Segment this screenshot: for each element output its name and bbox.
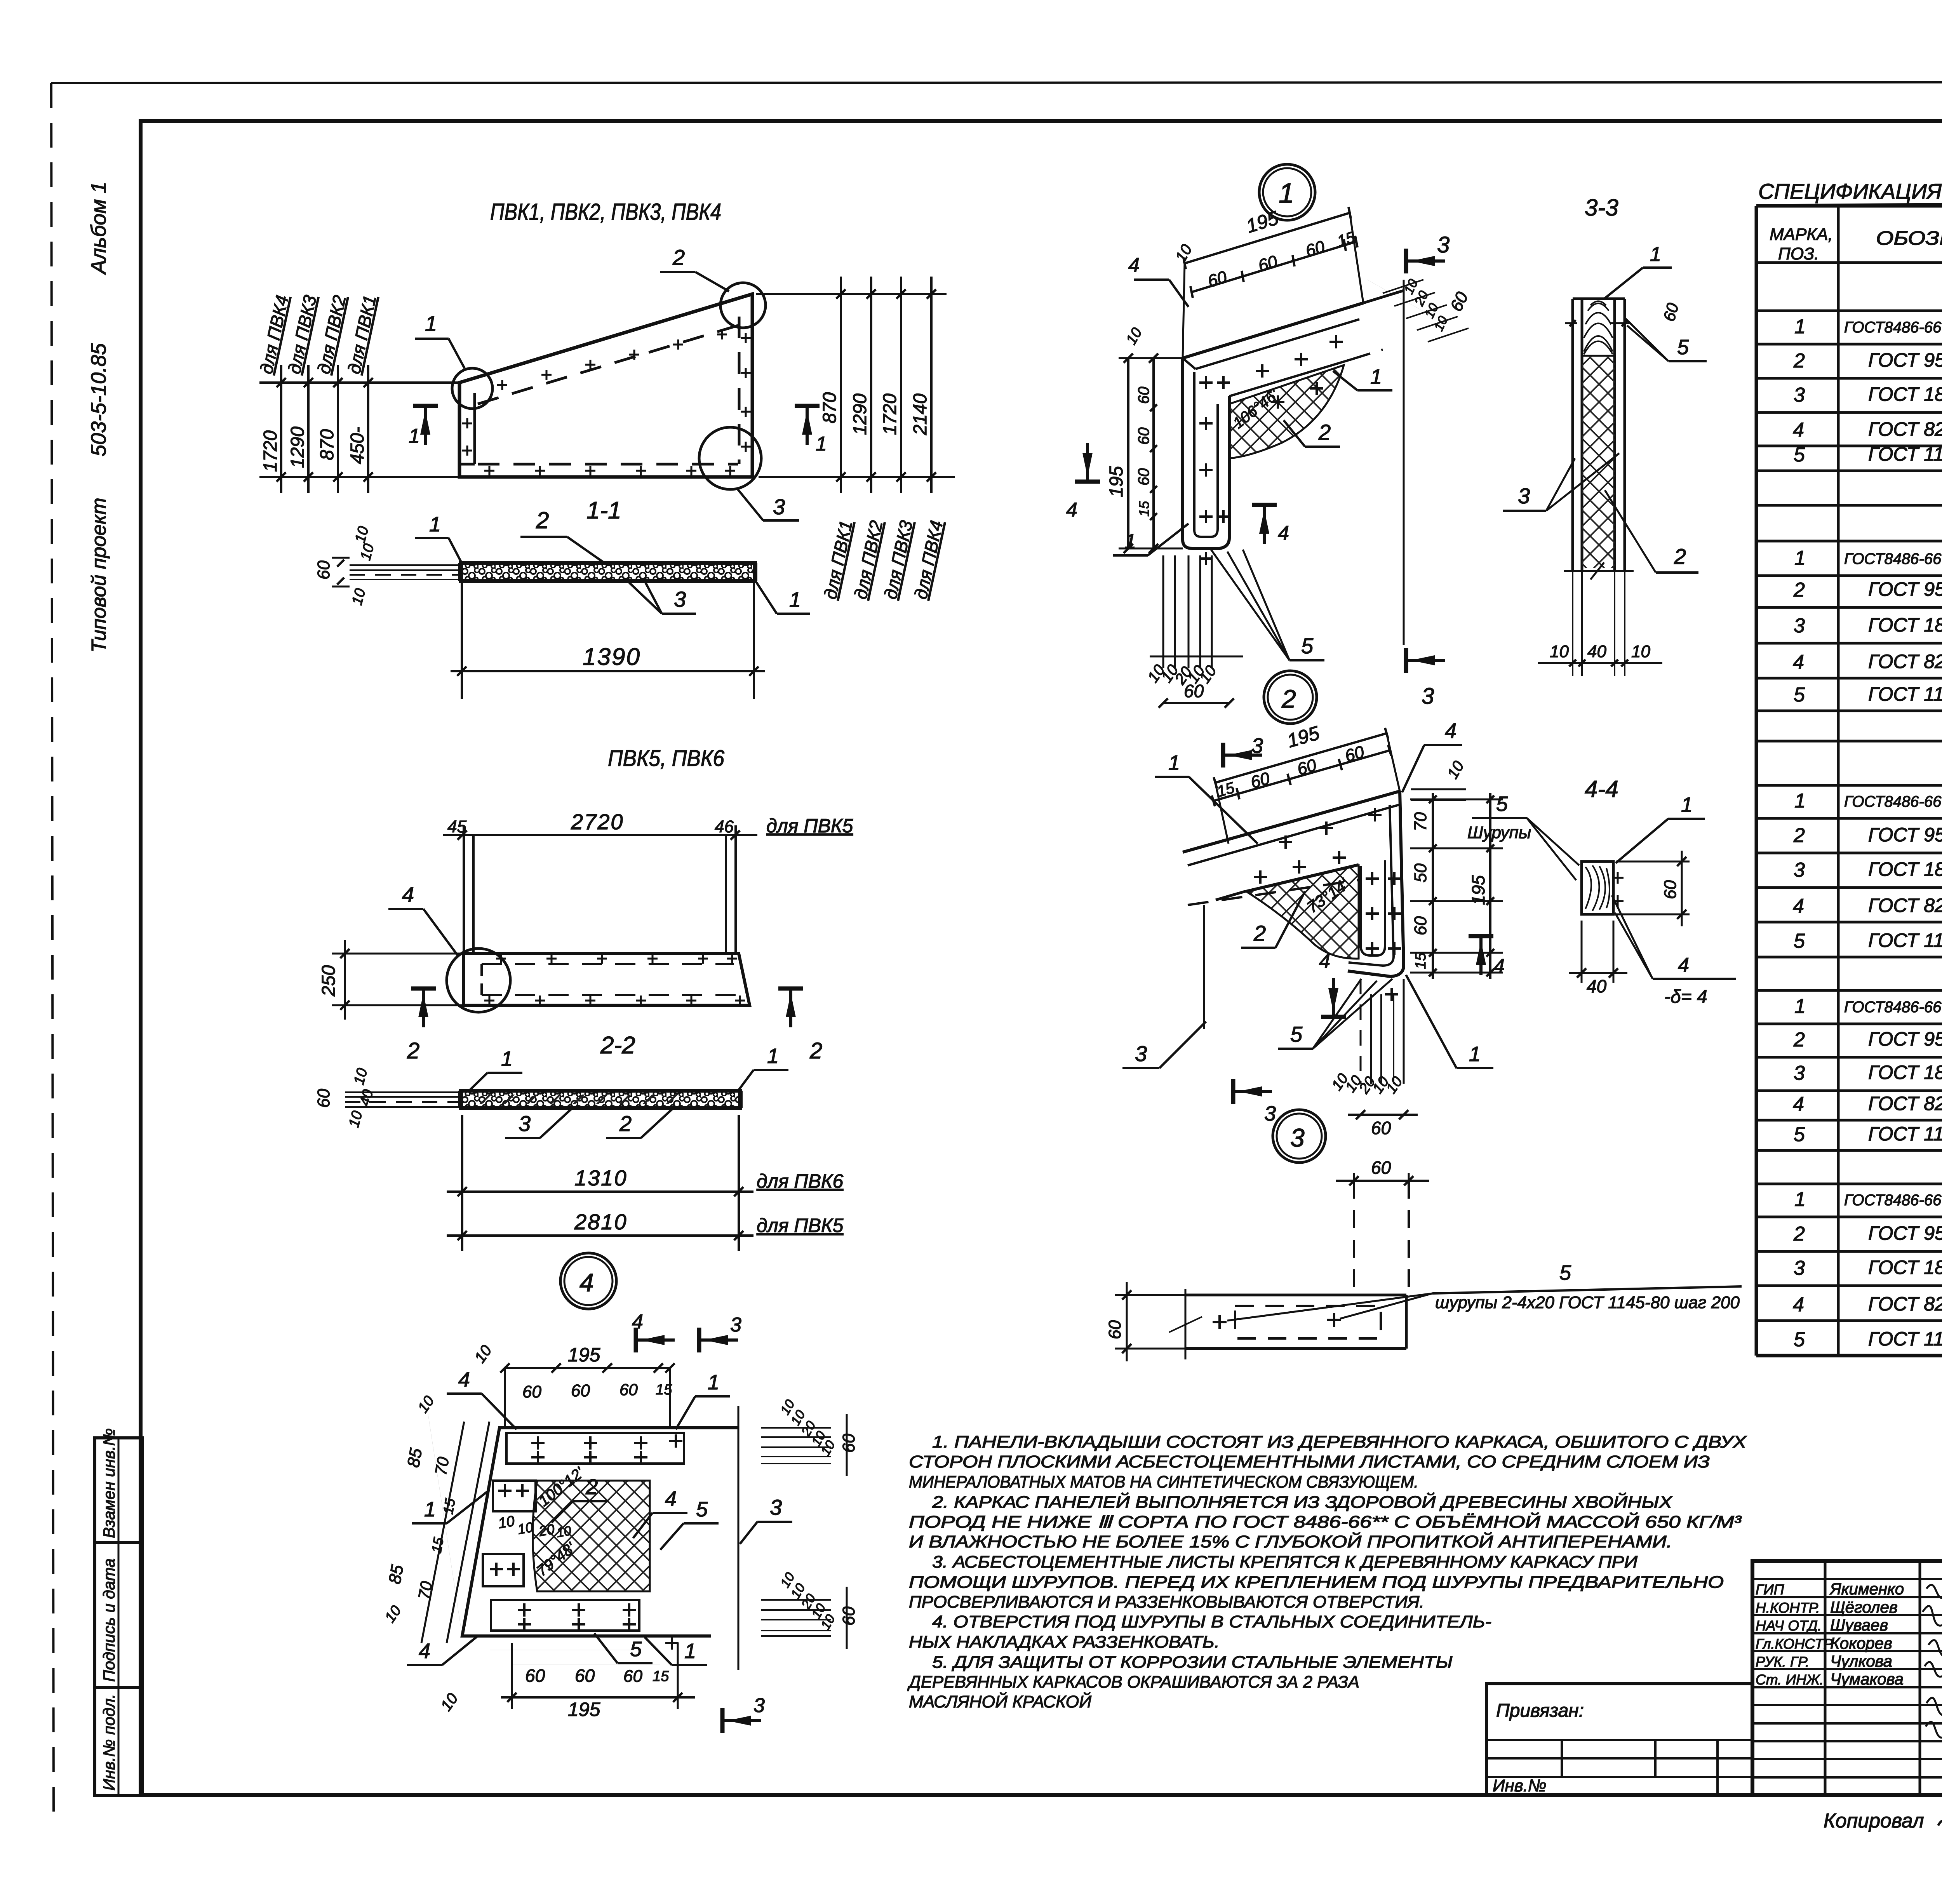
leader 2 detail1 [1305,446,1340,448]
detail 1 callout circle [1259,164,1315,220]
svg-text:для ПВК2: для ПВК2 [313,293,350,376]
bottom rail inner dashed [478,463,738,466]
leader 2 below 2-2 [606,1137,641,1139]
svg-text:3: 3 [1794,614,1805,637]
svg-text:1: 1 [1794,995,1806,1018]
svg-text:5: 5 [1301,634,1314,658]
svg-text:5. ДЛЯ ЗАЩИТЫ ОТ КОРРОЗИИ: 5. ДЛЯ ЗАЩИТЫ ОТ КОРРОЗИИ СТАЛЬНЫЕ ЭЛЕМЕ… [932,1653,1453,1672]
svg-text:ПВК5, ПВК6: ПВК5, ПВК6 [608,746,725,771]
dim 10 top right detail2 [1411,788,1466,790]
top member inner detail4 [506,1433,684,1464]
top dim 195 detail4 [505,1367,670,1369]
svg-text:2: 2 [1793,1223,1805,1245]
svg-text:ПОЗ.: ПОЗ. [1778,244,1819,263]
svg-text:Кокорев: Кокорев [1830,1634,1892,1652]
section mark 2 right [778,987,803,991]
dim 250 left [332,953,464,955]
svg-text:4: 4 [1278,522,1289,545]
svg-text:ПОМОЩИ ШУРУПОВ. ПЕРЕД ИХ К: ПОМОЩИ ШУРУПОВ. ПЕРЕД ИХ КРЕПЛЕНИЕМ ПОД … [909,1573,1724,1592]
section 4 marks detail2 [1321,1015,1346,1019]
svg-text:70: 70 [432,1455,453,1477]
bottom member inner detail4 [491,1600,639,1631]
svg-text:Привязан:: Привязан: [1496,1700,1584,1721]
svg-text:для ПВК1: для ПВК1 [820,519,856,601]
leader 1 top-left detail2 [1155,776,1189,778]
svg-text:Типовой проект: Типовой проект [88,498,110,653]
svg-text:40: 40 [1587,976,1607,996]
svg-text:60: 60 [839,1434,858,1453]
svg-text:ГОСТ8486-66**, ГОСТ24454-80: ГОСТ8486-66**, ГОСТ24454-80 [1844,999,1942,1016]
svg-text:4: 4 [458,1368,470,1391]
svg-text:5: 5 [1794,1328,1805,1351]
svg-text:ГОСТ 18124-75*: ГОСТ 18124-75* [1868,858,1942,880]
section 3 marks detail1 [1404,249,1408,273]
G_DRAWINGS [256,164,1747,1733]
svg-text:1: 1 [1794,790,1806,812]
label 4 b4 4-4 [1653,978,1736,980]
svg-text:10: 10 [1444,758,1467,782]
svg-text:4: 4 [1128,254,1140,277]
svg-text:15: 15 [428,1536,447,1554]
svg-text:2810: 2810 [574,1210,628,1234]
left dims detail1 [1127,358,1129,548]
svg-text:3: 3 [1135,1041,1147,1066]
detail circle callout top-right (detail 2) [720,283,766,328]
leader 5 bottom detail2 [1278,1048,1313,1050]
svg-text:60: 60 [522,1382,541,1401]
svg-text:1-1: 1-1 [586,497,621,524]
section 1-1 left thin lines [350,564,461,566]
dims 1310 2810 [461,1115,463,1251]
svg-text:3: 3 [1794,384,1805,406]
svg-text:ГОСТ 1145-80*: ГОСТ 1145-80* [1868,1328,1942,1350]
svg-text:Альбом 1: Альбом 1 [87,182,110,275]
svg-text:ГОСТ 18124-75*: ГОСТ 18124-75* [1868,1062,1942,1083]
svg-text:1: 1 [1370,365,1382,388]
svg-text:15: 15 [1413,952,1429,969]
screws detail4 [531,1442,545,1444]
cut line detail1 [1403,280,1405,645]
svg-text:4: 4 [402,882,414,907]
specification table grid [1756,204,1942,208]
svg-text:Якименко: Якименко [1829,1580,1904,1598]
title block outer [1752,1561,1942,1795]
svg-text:1: 1 [708,1371,719,1394]
svg-text:1310: 1310 [574,1166,628,1190]
section mark 2 left [411,987,436,991]
svg-text:60: 60 [1135,387,1152,404]
left stamp boxes [95,1438,142,1795]
detail 2 hatch filler [1247,865,1359,959]
wood block grain 3-3 [1584,301,1613,352]
svg-text:3: 3 [1251,734,1263,757]
svg-text:Инв.№: Инв.№ [1493,1776,1547,1795]
svg-text:2: 2 [1793,824,1805,847]
svg-text:2. КАРКАС ПАНЕЛЕЙ ВЫПОЛНЯЕТС: 2. КАРКАС ПАНЕЛЕЙ ВЫПОЛНЯЕТСЯ ИЗ ЗДОРОВО… [932,1492,1673,1512]
svg-text:10: 10 [1123,325,1145,348]
svg-text:60: 60 [314,1089,333,1108]
svg-text:1: 1 [1794,315,1806,338]
detail 4 callout circle [560,1253,616,1309]
svg-text:4: 4 [1793,419,1804,441]
svg-text:5: 5 [1794,444,1805,466]
svg-text:5: 5 [1290,1022,1303,1046]
svg-text:450-: 450- [347,427,368,464]
svg-text:3: 3 [770,1495,782,1519]
screws on elevation [497,384,507,386]
left dims detail4 [428,1414,462,1636]
middle hatch detail4 [533,1481,650,1591]
svg-text:1: 1 [767,1044,779,1068]
svg-text:ГОСТ 18124-75*: ГОСТ 18124-75* [1868,1257,1942,1278]
dim 60 top detail3 [1353,1173,1355,1189]
svg-text:10: 10 [437,1690,461,1714]
outer border top line [51,82,1942,83]
svg-text:МАРКА,: МАРКА, [1770,225,1833,244]
svg-text:-δ= 4: -δ= 4 [1664,987,1707,1007]
svg-text:1: 1 [789,588,801,611]
svg-text:ДЕРЕВЯННЫХ КАРКАСОВ ОКРАШИВА: ДЕРЕВЯННЫХ КАРКАСОВ ОКРАШИВАЮТСЯ ЗА 2 РА… [907,1673,1359,1692]
svg-text:60: 60 [1447,289,1472,315]
svg-text:1: 1 [501,1047,513,1070]
slope dim 195 detail1 [1185,213,1350,263]
svg-text:2: 2 [619,1111,632,1136]
svg-text:10: 10 [1550,642,1569,661]
svg-text:5: 5 [1559,1261,1571,1284]
section mark 1 right [795,404,820,408]
svg-text:60: 60 [1411,916,1430,935]
svg-text:15: 15 [1136,501,1152,517]
right stile inner dashed [738,317,741,464]
left dim ladder extension lines [259,381,459,384]
dim 60 left detail3 [1115,1294,1185,1296]
filler hatch detail1 [1229,365,1344,458]
panel elevation outline [459,294,752,477]
svg-text:ГОСТ 9573-82: ГОСТ 9573-82 [1868,1222,1942,1244]
leader 3 to bottom-right corner [763,519,799,522]
svg-text:Чулкова: Чулкова [1830,1652,1892,1670]
svg-text:2: 2 [1793,350,1805,372]
wool hatch 3-3 [1582,356,1615,568]
G_TITLEBLOCK [1486,1561,1942,1839]
right cut lines detail4 [738,1406,740,1670]
svg-text:195: 195 [568,1344,600,1366]
signature table [1824,1561,1827,1795]
svg-text:Н.КОНТР.: Н.КОНТР. [1756,1600,1820,1616]
detail circle 4 on plan [447,949,510,1012]
svg-text:1290: 1290 [287,426,308,468]
svg-text:для ПВК1: для ПВК1 [344,293,380,376]
leader 1 4-4 [1668,818,1705,820]
svg-text:50: 50 [1411,863,1430,882]
svg-text:2: 2 [1281,684,1296,713]
svg-text:ГОСТ 9573-82: ГОСТ 9573-82 [1868,1028,1942,1050]
svg-text:5: 5 [630,1638,642,1661]
svg-text:3: 3 [519,1111,531,1136]
svg-text:ГОСТ 9573-82: ГОСТ 9573-82 [1868,349,1942,371]
svg-text:2-2: 2-2 [600,1032,635,1059]
svg-text:5: 5 [1677,336,1689,359]
G_NOTES [0,0,0,0]
svg-text:60: 60 [1661,880,1680,899]
svg-text:2720: 2720 [571,809,624,834]
leader 2 3-3 [1656,571,1698,574]
svg-text:Шуваев: Шуваев [1830,1616,1888,1634]
svg-text:60: 60 [1135,468,1152,486]
svg-text:2: 2 [407,1038,419,1063]
svg-text:для ПВК6: для ПВК6 [757,1170,843,1192]
break mark detail3 left [1169,1317,1202,1332]
section 2-2 thin lines [345,1091,461,1093]
svg-text:ГОСТ8486-66**, ГОСТ24454-80: ГОСТ8486-66**, ГОСТ24454-80 [1844,319,1942,336]
svg-text:ГОСТ 82- 70 *: ГОСТ 82- 70 * [1868,895,1942,916]
svg-text:ГОСТ8486-66**, ГОСТ24454-80: ГОСТ8486-66**, ГОСТ24454-80 [1844,550,1942,567]
privyazan block [1486,1684,1752,1795]
section marks top detail4 [634,1328,638,1352]
leader 3 below strip [662,613,696,615]
panel cut edge right detail1 [1363,291,1404,303]
svg-text:1: 1 [1650,243,1661,266]
top rail inner dashed [478,325,738,404]
svg-text:1290: 1290 [850,393,870,435]
left stile member [473,393,476,464]
small box left upper detail4 [493,1481,536,1511]
screws detail1 [1199,381,1213,384]
svg-text:10: 10 [1631,642,1650,661]
bottom dims detail1 [1162,555,1164,668]
leader 1 right 2-2 [753,1069,788,1071]
svg-text:СТОРОН ПЛОСКИМИ АСБЕСТОЦЕМЕН: СТОРОН ПЛОСКИМИ АСБЕСТОЦЕМЕНТНЫМИ ЛИСТАМ… [909,1452,1710,1471]
svg-text:60: 60 [1371,1157,1391,1178]
leader 1 strip left [415,537,449,539]
svg-text:ОБОЗНАЧЕНИЕ: ОБОЗНАЧЕНИЕ [1876,227,1942,249]
svg-text:70: 70 [415,1580,436,1601]
svg-text:1: 1 [409,425,420,447]
svg-text:3: 3 [1794,1257,1805,1279]
svg-text:60: 60 [1184,681,1204,701]
svg-text:1. ПАНЕЛИ-ВКЛАДЫШИ СОСТОЯТ И: 1. ПАНЕЛИ-ВКЛАДЫШИ СОСТОЯТ ИЗ ДЕРЕВЯННОГ… [932,1432,1747,1451]
svg-text:шурупы 2-4х20 ГОСТ 1145-80 шаг: шурупы 2-4х20 ГОСТ 1145-80 шаг 200 [1435,1293,1740,1312]
svg-text:для ПВК4: для ПВК4 [910,519,947,601]
leader 1 3-3 [1643,266,1672,269]
svg-text:10: 10 [352,525,372,545]
svg-text:5: 5 [1794,1123,1805,1146]
small box left lower detail4 [483,1554,524,1586]
svg-text:40: 40 [1587,642,1606,661]
svg-text:1390: 1390 [583,644,641,670]
svg-text:Чумакова: Чумакова [1830,1670,1904,1688]
G_TABLE [1756,179,1942,1356]
svg-text:60: 60 [1371,1118,1391,1138]
svg-text:1720: 1720 [880,393,900,435]
outer border left dashed line [51,83,54,1820]
section mark 1 left [413,404,438,408]
svg-text:2: 2 [809,1038,822,1063]
svg-text:60: 60 [525,1666,545,1686]
svg-text:3: 3 [753,1694,765,1717]
svg-text:1: 1 [684,1639,696,1663]
right dim group lower detail4 [761,1599,831,1601]
svg-text:ГОСТ 9573-82: ГОСТ 9573-82 [1868,824,1942,846]
svg-text:10: 10 [346,1109,366,1130]
svg-text:4: 4 [665,1487,677,1511]
svg-text:1: 1 [1124,530,1136,553]
svg-text:3: 3 [1518,484,1530,508]
svg-text:60: 60 [839,1606,858,1626]
right dims detail2 [1432,793,1434,979]
right dim ladder extension lines [756,293,947,295]
detail circle callout bottom-right (detail 3) [699,427,761,489]
svg-text:ГИП: ГИП [1756,1582,1784,1598]
svg-text:870: 870 [317,429,338,460]
svg-text:5: 5 [1496,792,1508,816]
svg-text:250: 250 [318,965,339,997]
screws detail2 [1254,876,1267,878]
detail 4 top member [462,1428,738,1636]
svg-text:СПЕЦИФИКАЦИЯ ПАНЕЛЕЙ-ВКЛАДЫШЕ: СПЕЦИФИКАЦИЯ ПАНЕЛЕЙ-ВКЛАДЫШЕЙ КАРКАСНО-… [1758,179,1942,204]
leader 4 top detail2 [1424,744,1462,746]
svg-text:2: 2 [1793,579,1805,601]
svg-text:Шурупы: Шурупы [1467,823,1531,842]
slope dim 195 detail2 [1215,733,1387,783]
svg-text:10: 10 [471,1342,495,1366]
svg-text:для ПВК5: для ПВК5 [757,1215,843,1236]
svg-text:для ПВК5: для ПВК5 [766,815,853,837]
bottom dims detail4 [513,1664,660,1665]
svg-text:2: 2 [1253,921,1266,945]
svg-text:5: 5 [1794,684,1805,706]
svg-text:10: 10 [497,1513,516,1532]
section 3-3 sheets [1571,299,1574,570]
bottom extension and dims detail2 [1360,979,1362,1084]
svg-text:ПВК1, ПВК2, ПВК3, ПВК4: ПВК1, ПВК2, ПВК3, ПВК4 [490,199,721,225]
leader 2 strip top [520,536,567,538]
svg-text:НЫХ НАКЛАДКАХ РАЗЗЕНКОВАТЬ.: НЫХ НАКЛАДКАХ РАЗЗЕНКОВАТЬ. [909,1632,1220,1652]
leader 5 Шурупы 4-4 [1472,817,1527,819]
leader 1 bottom detail2 [1456,1067,1493,1069]
leader 5 detail3 with text [1432,1286,1742,1293]
svg-text:1: 1 [424,1498,436,1521]
svg-text:1720: 1720 [260,430,281,472]
detail 2 member inner edge [1216,865,1359,900]
svg-text:60: 60 [575,1666,595,1686]
detail 1 corner outline [1183,358,1229,548]
svg-text:ГОСТ 18124-75*: ГОСТ 18124-75* [1868,383,1942,405]
svg-text:3: 3 [773,494,785,519]
svg-text:ГОСТ 1145-80*: ГОСТ 1145-80* [1868,683,1942,705]
leader 1 to left corner [415,338,449,340]
right dim ladder lines [840,277,842,493]
svg-text:2: 2 [585,1474,598,1499]
svg-text:ГОСТ 1145-80*: ГОСТ 1145-80* [1868,443,1942,465]
svg-text:4: 4 [1793,1293,1804,1316]
svg-text:10: 10 [415,1393,438,1416]
svg-text:для ПВК2: для ПВК2 [850,519,887,601]
svg-text:10: 10 [357,542,378,562]
svg-text:ГОСТ8486-66**, ГОСТ24454-80: ГОСТ8486-66**, ГОСТ24454-80 [1844,1192,1942,1209]
detail 2 wood channel [1361,860,1385,955]
section mark 3 bottom detail4 [720,1708,725,1733]
detail 2 right leg [1348,791,1404,976]
svg-text:МАСЛЯНОЙ КРАСКОЙ: МАСЛЯНОЙ КРАСКОЙ [909,1692,1092,1711]
svg-text:15: 15 [653,1668,669,1685]
dashed line detail2 [1188,880,1358,905]
svg-text:ГОСТ 82- 70 *: ГОСТ 82- 70 * [1868,1293,1942,1315]
svg-text:И ВЛАЖНОСТЬЮ НЕ БОЛЕЕ 15%: И ВЛАЖНОСТЬЮ НЕ БОЛЕЕ 15% С ГЛУБОКОЙ ПРО… [909,1532,1672,1551]
svg-text:4: 4 [419,1639,430,1663]
dim ticks at 832 3-3 [1565,322,1577,324]
svg-text:ГОСТ 9573-82: ГОСТ 9573-82 [1868,578,1942,600]
svg-text:2: 2 [1674,544,1686,569]
svg-text:10: 10 [349,587,369,607]
svg-text:ГОСТ 82- 70 *: ГОСТ 82- 70 * [1868,651,1942,672]
leader 3 detail2 [1122,1067,1159,1069]
svg-text:1: 1 [1794,1188,1806,1211]
svg-text:195: 195 [1285,722,1322,752]
svg-text:60: 60 [571,1381,590,1400]
svg-text:1: 1 [816,433,827,455]
svg-text:Гл.КОНСТР: Гл.КОНСТР [1756,1636,1833,1652]
svg-text:3: 3 [1290,1123,1305,1152]
sloped member detail1 [1183,303,1363,358]
panel plan outline [464,954,750,1005]
svg-text:3: 3 [1794,859,1805,881]
svg-text:Щёголев: Щёголев [1830,1598,1898,1616]
svg-text:195: 195 [568,1699,600,1720]
svg-text:46: 46 [715,817,734,836]
leader 2 to top-right corner [660,271,695,273]
svg-text:1: 1 [429,513,441,536]
svg-text:70: 70 [1411,812,1430,831]
svg-text:60: 60 [1660,301,1682,323]
section 3 marks detail2 [1221,743,1225,768]
svg-text:2140: 2140 [910,393,931,435]
svg-text:4: 4 [1793,1093,1804,1116]
svg-text:2: 2 [1318,420,1331,444]
svg-text:60: 60 [623,1667,642,1686]
svg-text:40: 40 [357,1088,377,1108]
svg-text:Инв.№ подл.: Инв.№ подл. [100,1694,118,1791]
svg-text:10: 10 [1383,1074,1406,1096]
detail 3 vertical guides [1353,1181,1355,1295]
leaders detail4 [447,1392,482,1395]
svg-text:4-4: 4-4 [1585,776,1618,802]
plan inner dashed [482,963,734,965]
svg-text:ГОСТ 18124-75*: ГОСТ 18124-75* [1868,614,1942,636]
svg-text:3. АСБЕСТОЦЕМЕНТНЫЕ ЛИСТЫ КР: 3. АСБЕСТОЦЕМЕНТНЫЕ ЛИСТЫ КРЕПЯТСЯ К ДЕР… [932,1552,1638,1572]
signatures [1926,1585,1942,1603]
svg-text:60: 60 [314,560,333,580]
bottom break 3-3 [1564,570,1634,572]
right dim group upper detail4 [761,1427,831,1429]
leader 1 bottom-left detail1 [1113,554,1148,557]
svg-text:для ПВК3: для ПВК3 [880,519,917,601]
svg-text:195: 195 [1468,875,1488,905]
cut line detail2 [1203,905,1205,1029]
screws detail3 [1213,1321,1227,1323]
svg-text:2: 2 [1793,1029,1805,1051]
svg-text:ПОРОД НЕ НИЖЕ Ⅲ СОРТА ПО: ПОРОД НЕ НИЖЕ Ⅲ СОРТА ПО ГОСТ 8486-66** … [909,1512,1742,1532]
svg-text:3-3: 3-3 [1585,195,1618,221]
svg-text:4: 4 [1493,955,1505,978]
svg-text:1: 1 [1168,751,1180,774]
svg-text:4: 4 [579,1268,594,1297]
svg-text:195: 195 [1106,466,1127,497]
svg-text:10: 10 [516,1519,534,1537]
leader 1 right detail1 [1357,389,1392,392]
svg-text:5: 5 [696,1498,708,1521]
svg-text:ПРОСВЕРЛИВАЮТСЯ И РАЗЗЕНКОВЫ: ПРОСВЕРЛИВАЮТСЯ И РАЗЗЕНКОВЫВАЮТСЯ ОТВЕР… [909,1592,1424,1612]
